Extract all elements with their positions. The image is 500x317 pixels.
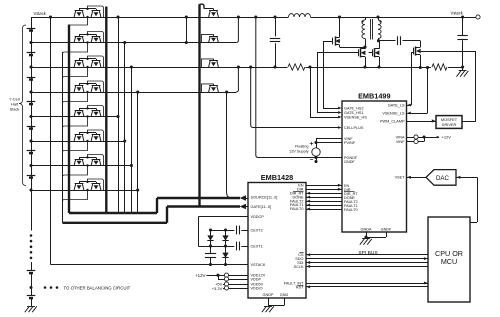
- svg-text:GATE_LS: GATE_LS: [388, 103, 405, 107]
- svg-text:+12V: +12V: [442, 135, 452, 140]
- svg-text:VDDIO: VDDIO: [251, 286, 263, 290]
- svg-text:Vstack: Vstack: [451, 11, 464, 16]
- svg-text:FAULT0: FAULT0: [344, 208, 358, 212]
- svg-text:PWM_CLAMP: PWM_CLAMP: [380, 119, 405, 123]
- svg-text:Floating: Floating: [295, 144, 309, 148]
- svg-text:GND: GND: [280, 293, 289, 297]
- svg-text:GNDA: GNDA: [361, 227, 372, 231]
- svg-text:RST: RST: [296, 285, 304, 289]
- svg-text:+12V: +12V: [195, 273, 205, 278]
- svg-text:DRIVER: DRIVER: [442, 122, 457, 127]
- svg-text:Vstack: Vstack: [34, 11, 47, 16]
- svg-text:VSTACK: VSTACK: [251, 263, 266, 267]
- svg-text:FAULT0: FAULT0: [290, 207, 304, 211]
- svg-text:GATE_HS2: GATE_HS2: [344, 106, 364, 110]
- svg-text:DAC: DAC: [436, 175, 450, 182]
- svg-text:TO OTHER BALANCING CIRCUIT: TO OTHER BALANCING CIRCUIT: [64, 286, 131, 291]
- svg-text:VINA: VINA: [396, 135, 405, 139]
- svg-text:MCU: MCU: [441, 257, 457, 266]
- svg-text:VDDCP: VDDCP: [251, 215, 265, 219]
- svg-text:GATE[11..0]: GATE[11..0]: [251, 205, 272, 209]
- svg-text:12V Supply: 12V Supply: [289, 149, 309, 153]
- svg-text:PVINF: PVINF: [344, 141, 356, 145]
- svg-text:VINF: VINF: [396, 140, 405, 144]
- svg-text:VSENSE_LS: VSENSE_LS: [382, 111, 405, 115]
- svg-text:GATE_HS1: GATE_HS1: [344, 111, 364, 115]
- svg-text:GNDF: GNDF: [344, 160, 355, 164]
- svg-text:CELLPLUS: CELLPLUS: [344, 126, 364, 130]
- svg-text:GNDP: GNDP: [263, 293, 274, 297]
- svg-text:EMB1499: EMB1499: [358, 92, 390, 101]
- svg-text:GNDF: GNDF: [381, 227, 392, 231]
- svg-text:CEXT2: CEXT2: [251, 228, 263, 232]
- svg-text:VSET: VSET: [395, 176, 406, 180]
- svg-text:Stack: Stack: [10, 107, 20, 112]
- svg-text:CEXT1: CEXT1: [251, 244, 263, 248]
- svg-text:+3.3V: +3.3V: [212, 286, 223, 291]
- svg-text:VDDP: VDDP: [251, 278, 262, 282]
- svg-text:VSENSE_HS: VSENSE_HS: [344, 115, 367, 119]
- svg-text:SOURCE[11..0]: SOURCE[11..0]: [251, 195, 278, 199]
- svg-text:EMB1428: EMB1428: [261, 173, 293, 182]
- svg-text:SCLK: SCLK: [294, 265, 304, 269]
